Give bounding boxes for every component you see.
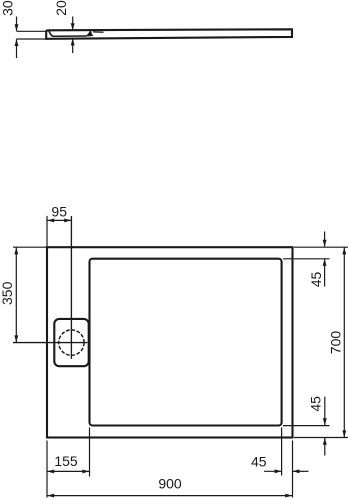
dimension 900: line — [47, 495, 292, 497]
svg-text:30: 30 — [0, 0, 15, 16]
drain: vertical centerline (from 95 dim) — [70, 216, 72, 359]
dimension 45 top-right: upper arrowhead — [323, 240, 327, 247]
dimension 20: lower arrowhead — [71, 38, 75, 45]
dimension 30: lower arrowhead — [15, 39, 19, 46]
dimension 95: left arrowhead — [47, 218, 54, 222]
side profile: recess left wall — [49, 30, 53, 36]
drain: dashed circle — [59, 330, 84, 355]
side profile: recess right rim edge — [93, 31, 104, 33]
dimension 95: line — [47, 219, 71, 221]
extension: inner bottom edge extended right — [283, 425, 330, 427]
dimension 20: upper arrowhead — [71, 23, 75, 30]
plan view: outer rectangle 900x700 — [47, 247, 293, 437]
plan view: inner rectangle (tray floor) — [90, 259, 282, 426]
extension line left of outer top corner (350 dim) — [13, 246, 46, 248]
svg-text:45: 45 — [251, 453, 267, 469]
dimension 30: upper arrowhead — [15, 24, 19, 31]
svg-text:45: 45 — [308, 272, 324, 288]
dimension 45 bottom-right: lower tail — [324, 438, 326, 456]
dimension 350: bottom arrowhead — [14, 335, 18, 342]
extension below outer-left corner (155/900 dims) — [46, 441, 48, 498]
dimension 155: left arrowhead — [47, 469, 54, 473]
dimension 45 bottom: right tail — [293, 470, 309, 472]
dimension 900: right arrowhead — [285, 494, 292, 498]
svg-text:95: 95 — [51, 203, 67, 219]
extension line above outer left corner (95 dim) — [46, 216, 48, 247]
svg-text:20: 20 — [53, 0, 69, 16]
dimension 30: upper tail — [16, 17, 18, 32]
dimension 45 top-right: lower tail — [324, 259, 326, 286]
extension: inner top edge extended right — [283, 258, 330, 260]
extension line bottom-left of profile — [17, 38, 49, 40]
drain: horizontal centerline (to 350 dim) — [13, 342, 87, 344]
dimension 20: upper tail — [72, 17, 74, 31]
dimension 45 bottom-right: upper tail — [324, 397, 326, 425]
svg-text:900: 900 — [158, 475, 182, 491]
extension below inner-left edge (155 dim) — [89, 428, 91, 477]
dimension 45 bottom-right: upper arrowhead — [323, 418, 327, 425]
dimension 700: bottom arrowhead — [342, 430, 346, 437]
extension below inner-right edge (45 dim) — [281, 428, 283, 476]
extension line top-left of profile — [17, 30, 48, 32]
dimension 45 bottom-right: lower arrowhead — [323, 438, 327, 445]
dimension 45 bottom: left tail — [264, 470, 281, 472]
dimension 155: line — [47, 470, 89, 472]
dimension 95: right arrowhead — [64, 218, 71, 222]
dimension 45 top-right: lower arrowhead — [323, 259, 327, 266]
svg-text:155: 155 — [54, 453, 78, 469]
extension: outer top edge extended right — [294, 246, 348, 248]
dimension 45 top-right: upper tail — [324, 232, 326, 247]
drain: rounded square — [54, 319, 88, 366]
dimension 30: lower tail — [16, 39, 18, 58]
extension below outer-right corner (45/900 dims) — [292, 441, 294, 498]
svg-text:45: 45 — [308, 396, 324, 412]
dimension 700: line — [343, 248, 345, 438]
dimension 350: top arrowhead — [14, 247, 18, 254]
dimension 900: left arrowhead — [47, 494, 54, 498]
extension: outer bottom edge extended right — [294, 437, 348, 439]
dimension 45 bottom: left arrowhead (points right) — [275, 469, 282, 473]
dimension 700: top arrowhead — [342, 247, 346, 254]
dimension 350: line — [15, 247, 17, 342]
dimension 20: lower tail — [72, 39, 74, 54]
svg-text:350: 350 — [0, 281, 15, 305]
svg-text:700: 700 — [328, 331, 344, 355]
side profile: tray body outline — [46, 29, 292, 39]
dimension 155: right arrowhead — [82, 469, 89, 473]
side profile: waste cover bottom — [53, 35, 87, 37]
side profile: waste cover right end (filled wedge) — [85, 30, 94, 36]
dimension 45 bottom: right arrowhead (points left) — [293, 469, 300, 473]
